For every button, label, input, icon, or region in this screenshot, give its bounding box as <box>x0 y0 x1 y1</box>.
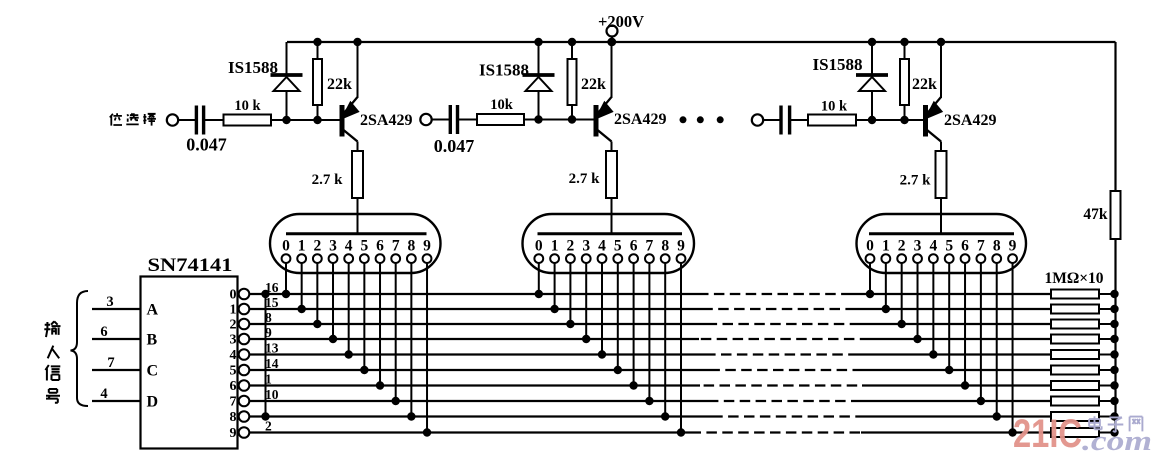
junction: array resistor 6 to common line <box>1110 381 1118 389</box>
wire: cathode bus line 9 (left solid) <box>249 431 701 433</box>
junction: emitter on rail stage 2 <box>607 38 615 46</box>
wire: cathode bus line 8 (left solid) <box>249 415 718 417</box>
junction: 22k top on rail stage 1 <box>313 38 321 46</box>
IC output 0 pin circle <box>239 289 250 300</box>
junction: tie top on bus 0 <box>261 290 269 298</box>
wire terminal to capacitor C2 <box>432 119 451 121</box>
transistor 2SA429 Q3 (PNP) <box>923 105 928 137</box>
svg-text:6: 6 <box>630 238 638 255</box>
svg-text:3: 3 <box>230 333 237 348</box>
junction: array resistor 1 to common line <box>1110 305 1118 313</box>
svg-text:IS1588: IS1588 <box>479 61 529 80</box>
svg-text:22k: 22k <box>327 76 352 93</box>
svg-text:10k: 10k <box>490 97 514 113</box>
resistor 1M (array) on bus 1 <box>1051 305 1099 314</box>
junction: array resistor 8 to common line <box>1110 412 1118 420</box>
transistor 2SA429 Q2 (PNP) <box>594 105 599 137</box>
svg-text:2: 2 <box>567 238 575 255</box>
svg-text:9: 9 <box>677 238 685 255</box>
resistor 1M (array) on bus 8 <box>1051 412 1099 421</box>
IC output 9 pin circle <box>239 427 250 438</box>
junction: emitter on rail stage 3 <box>937 38 945 46</box>
IC input A lead <box>92 308 141 310</box>
svg-text:3: 3 <box>329 238 337 255</box>
svg-text:4: 4 <box>929 238 937 255</box>
svg-text:1: 1 <box>551 238 559 255</box>
wire: vertical tie at bus left end <box>265 294 267 417</box>
junction: 22k node stage 2 <box>568 115 576 123</box>
svg-text:14: 14 <box>265 356 279 371</box>
svg-text:SN74141: SN74141 <box>148 256 233 276</box>
junction: array resistor 5 to common line <box>1110 366 1118 374</box>
capacitor C2 0.047 <box>449 105 452 134</box>
svg-text:6: 6 <box>230 379 237 394</box>
junction: diode node stage 3 <box>868 116 876 124</box>
wire: cathode bus line 8 (dashed middle) <box>718 415 856 417</box>
power terminal +200V <box>607 26 618 37</box>
svg-text:8: 8 <box>661 238 669 255</box>
svg-text:5: 5 <box>360 238 368 255</box>
svg-text:2: 2 <box>898 238 906 255</box>
diode IS1588 stage 2 (anode at node, cathode to rail) <box>538 92 540 120</box>
nixie tube V1 anode bar <box>286 232 427 235</box>
svg-text:2.7 k: 2.7 k <box>569 171 601 187</box>
svg-text:22k: 22k <box>912 76 937 93</box>
wire 10k to base node stage 1 <box>271 119 342 121</box>
wire capacitor to resistor 10k stage 2 <box>458 119 478 121</box>
wire: cathode bus line 6 (dashed middle) <box>700 384 862 386</box>
IC U1 SN74141 body <box>141 277 238 449</box>
wire: cathode bus line 2 (dashed middle) <box>716 323 858 325</box>
svg-text:4: 4 <box>230 348 237 363</box>
resistor 2.7k stage 2 <box>606 151 617 198</box>
svg-text:2SA429: 2SA429 <box>944 112 996 129</box>
svg-text:6: 6 <box>961 238 969 255</box>
svg-text:0.047: 0.047 <box>434 136 475 156</box>
wire: cathode bus line 1 (left solid) <box>249 308 707 310</box>
wire: cathode bus line 4 (right solid) <box>852 353 1051 355</box>
IC input C lead <box>92 369 141 371</box>
resistor 22k stage 2 <box>571 42 573 59</box>
svg-text:D: D <box>147 394 159 411</box>
svg-text:5: 5 <box>230 364 237 379</box>
svg-text:4: 4 <box>598 238 606 255</box>
wire: cathode bus line 4 (left solid) <box>249 353 708 355</box>
svg-text:9: 9 <box>230 426 237 441</box>
wire 2.7k to nixie anode stage 2 <box>611 198 613 235</box>
wire 2.7k to nixie anode stage 1 <box>357 198 359 235</box>
svg-text:IS1588: IS1588 <box>228 58 278 77</box>
svg-text:2: 2 <box>230 318 237 333</box>
resistor R 10k stage 1 <box>224 115 272 126</box>
junction: 22k node stage 1 <box>313 116 321 124</box>
junction: array resistor 0 to common line <box>1110 290 1118 298</box>
svg-text:3: 3 <box>914 238 922 255</box>
svg-text:7: 7 <box>646 238 654 255</box>
svg-text:2SA429: 2SA429 <box>614 111 666 128</box>
svg-text:10 k: 10 k <box>821 99 848 115</box>
svg-text:0: 0 <box>230 288 237 303</box>
svg-text:1: 1 <box>230 303 237 318</box>
watermark 电子网 <box>1089 416 1102 429</box>
svg-text:0: 0 <box>282 238 290 255</box>
wire: cathode bus line 8 (right solid) <box>856 415 1051 417</box>
svg-text:9: 9 <box>1009 238 1017 255</box>
IC output 4 pin circle <box>239 349 250 360</box>
resistor 1M (array) on bus 6 <box>1051 381 1099 390</box>
diode IS1588 stage 1 (anode at node, cathode to rail) <box>286 92 288 121</box>
junction: array resistor 4 to common line <box>1110 350 1118 358</box>
svg-text:.com: .com <box>1082 426 1152 457</box>
wire: cathode bus line 0 (left solid) <box>249 293 698 295</box>
nixie tube V2 anode bar <box>538 232 683 235</box>
junction: diode node stage 1 <box>282 116 290 124</box>
nixie tube V2 envelope <box>523 214 695 273</box>
transistor 2SA429 Q1 (PNP) <box>340 105 345 137</box>
junction: diode node stage 2 <box>534 115 542 123</box>
wire: cathode bus line 4 (dashed middle) <box>708 353 852 355</box>
svg-text:2: 2 <box>265 419 272 434</box>
junction: array resistor 7 to common line <box>1110 397 1118 405</box>
svg-text:1MΩ×10: 1MΩ×10 <box>1044 270 1103 287</box>
svg-text:A: A <box>147 302 159 319</box>
wire: cathode bus line 9 (right solid) <box>861 431 1051 433</box>
svg-text:3: 3 <box>106 294 113 310</box>
input terminal stage 3 <box>752 114 763 125</box>
svg-text:5: 5 <box>945 238 953 255</box>
wire: cathode bus line 1 (dashed middle) <box>707 308 853 310</box>
svg-text:0.047: 0.047 <box>186 135 227 155</box>
junction: diode cathode on rail stage 3 <box>868 38 876 46</box>
IC output 6 pin circle <box>239 380 250 391</box>
svg-text:7: 7 <box>977 238 985 255</box>
svg-text:21IC: 21IC <box>1013 412 1082 456</box>
nixie tube V1 envelope <box>270 214 441 273</box>
label 输入信号 (input signals) vertical <box>44 321 60 337</box>
svg-text:8: 8 <box>230 410 237 425</box>
wire: cathode bus line 0 (dashed middle) <box>698 293 848 295</box>
capacitor C3 0.047 <box>779 106 782 135</box>
wire: cathode bus line 6 (right solid) <box>862 384 1051 386</box>
resistor 47k <box>1111 191 1121 239</box>
junction: array resistor 2 to common line <box>1110 320 1118 328</box>
nixie tube V3 envelope <box>857 214 1027 273</box>
wire: cathode bus line 3 (right solid) <box>863 338 1051 340</box>
wire: cathode bus line 6 (left solid) <box>249 384 700 386</box>
svg-text:+200V: +200V <box>598 12 644 31</box>
IC output 8 pin circle <box>239 411 250 422</box>
wire: cathode bus line 5 (dashed middle) <box>717 369 857 371</box>
wire 2.7k to nixie anode stage 3 <box>940 198 942 235</box>
resistor 1M (array) on bus 3 <box>1051 335 1099 344</box>
resistor 2.7k stage 3 <box>936 151 947 198</box>
svg-text:1: 1 <box>882 238 890 255</box>
wire: cathode bus line 7 (left solid) <box>249 400 709 402</box>
IC output 3 pin circle <box>239 334 250 345</box>
resistor 1M (array) on bus 0 <box>1051 290 1099 299</box>
IC input B lead <box>92 338 141 340</box>
wire: +200V supply rail <box>287 41 1116 43</box>
junction: emitter on rail stage 1 <box>353 38 361 46</box>
wire: cathode bus line 1 (right solid) <box>853 308 1051 310</box>
wire: cathode bus line 7 (dashed middle) <box>709 400 851 402</box>
wire: cathode bus line 5 (right solid) <box>857 369 1051 371</box>
junction: 22k node stage 3 <box>900 116 908 124</box>
svg-text:C: C <box>147 363 159 380</box>
junction: +200V on rail <box>608 38 616 46</box>
ellipsis dots (repeated stages omitted) <box>680 116 687 123</box>
input terminal stage 2 <box>420 114 431 125</box>
junction: 22k top on rail stage 3 <box>900 38 908 46</box>
wire: cathode bus line 0 (right solid) <box>848 293 1051 295</box>
resistor 1M (array) on bus 4 <box>1051 350 1099 359</box>
wire: right-side vertical from rail to 47k <box>1114 42 1116 191</box>
resistor 1M (array) on bus 5 <box>1051 366 1099 375</box>
wire: cathode bus line 3 (left solid) <box>249 338 699 340</box>
nixie tube V3 anode bar <box>869 232 1014 235</box>
svg-text:3: 3 <box>582 238 590 255</box>
resistor R 10k stage 2 <box>477 114 524 125</box>
wire 10k to base node stage 2 <box>524 119 596 121</box>
svg-text:5: 5 <box>614 238 622 255</box>
resistor 22k stage 1 <box>317 42 319 59</box>
wire capacitor to resistor 10k stage 1 <box>204 119 224 121</box>
capacitor C1 0.047 <box>195 106 198 135</box>
svg-text:47k: 47k <box>1083 206 1108 223</box>
wire: cathode bus line 9 (dashed middle) <box>701 431 861 433</box>
diode IS1588 stage 3 (anode at node, cathode to rail) <box>871 92 873 121</box>
wire terminal to capacitor C1 <box>178 119 196 121</box>
IC output 7 pin circle <box>239 396 250 407</box>
svg-text:9: 9 <box>423 238 431 255</box>
wire 10k to base node stage 3 <box>856 119 925 121</box>
wire terminal to capacitor C3 <box>763 119 781 121</box>
junction: diode cathode on rail stage 2 <box>534 38 542 46</box>
resistor 22k stage 3 <box>904 42 906 59</box>
input terminal stage 1 <box>167 114 178 125</box>
IC input D lead <box>92 400 141 402</box>
wire: cathode bus line 5 (left solid) <box>249 369 717 371</box>
resistor 1M (array) on bus 2 <box>1051 320 1099 329</box>
junction: array resistor 9 to common line <box>1110 428 1118 436</box>
resistor 1M (array) on bus 9 <box>1051 428 1099 437</box>
svg-text:22k: 22k <box>581 76 606 93</box>
junction: array resistor 3 to common line <box>1110 335 1118 343</box>
svg-text:2.7 k: 2.7 k <box>900 173 932 189</box>
IC output 2 pin circle <box>239 319 250 330</box>
wire: cathode bus line 3 (dashed middle) <box>699 338 863 340</box>
svg-text:4: 4 <box>100 386 107 402</box>
svg-text:7: 7 <box>392 238 400 255</box>
junction: tie bottom on bus 8 <box>261 412 269 420</box>
resistor 2.7k stage 1 <box>352 151 363 198</box>
svg-text:B: B <box>147 332 158 349</box>
svg-text:0: 0 <box>535 238 543 255</box>
label 位选择 (digit select) <box>110 113 122 125</box>
svg-text:10 k: 10 k <box>234 98 261 114</box>
IC output 5 pin circle <box>239 365 250 376</box>
wire: common line of resistor array <box>1114 239 1116 433</box>
svg-text:0: 0 <box>866 238 874 255</box>
wire: cathode bus line 2 (left solid) <box>249 323 716 325</box>
svg-text:2SA429: 2SA429 <box>360 112 412 129</box>
IC output 1 pin circle <box>239 304 250 315</box>
svg-text:2.7 k: 2.7 k <box>312 172 344 188</box>
svg-text:13: 13 <box>265 341 279 356</box>
resistor R 10k stage 3 <box>808 115 856 126</box>
svg-text:7: 7 <box>230 395 237 410</box>
svg-text:8: 8 <box>993 238 1001 255</box>
svg-text:IS1588: IS1588 <box>812 55 862 74</box>
svg-text:10: 10 <box>265 387 279 402</box>
junction: 22k top on rail stage 2 <box>568 38 576 46</box>
svg-text:1: 1 <box>298 238 306 255</box>
svg-text:8: 8 <box>407 238 415 255</box>
wire: cathode bus line 7 (right solid) <box>851 400 1051 402</box>
svg-text:7: 7 <box>107 355 114 371</box>
svg-text:2: 2 <box>313 238 321 255</box>
svg-text:6: 6 <box>100 324 107 340</box>
svg-text:4: 4 <box>345 238 353 255</box>
svg-text:6: 6 <box>376 238 384 255</box>
wire capacitor to resistor 10k stage 3 <box>790 119 808 121</box>
brace for input signals <box>71 291 89 406</box>
wire: cathode bus line 2 (right solid) <box>858 323 1051 325</box>
resistor 1M (array) on bus 7 <box>1051 397 1099 406</box>
